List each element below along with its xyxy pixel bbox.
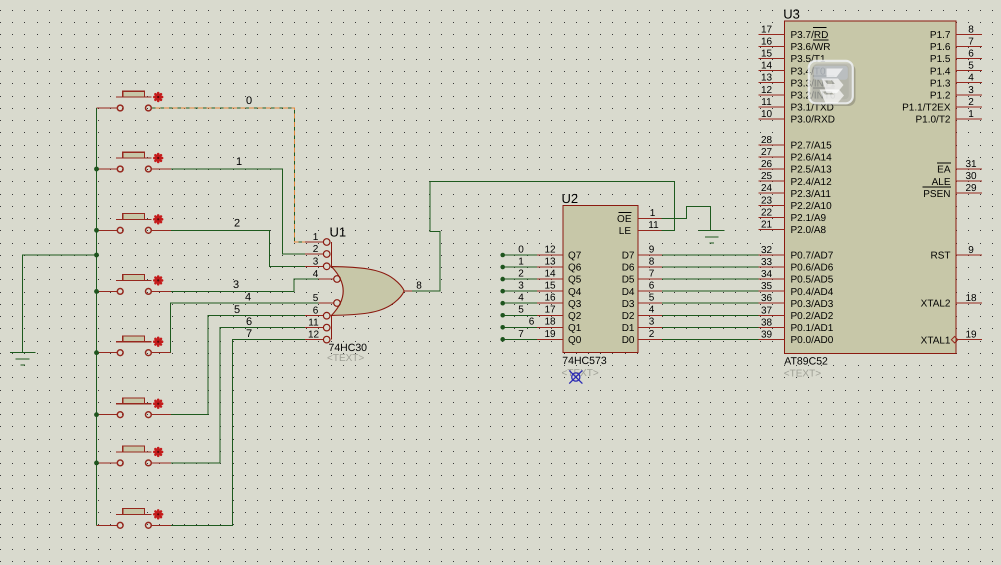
svg-text:2: 2 [313, 244, 319, 255]
U3 pin 36 P0.3/AD3 [758, 302, 784, 304]
svg-text:P1.5: P1.5 [930, 54, 951, 65]
svg-text:4: 4 [245, 292, 251, 304]
svg-text:3: 3 [968, 85, 974, 96]
svg-text:P2.5/A13: P2.5/A13 [791, 165, 833, 176]
svg-text:1: 1 [650, 208, 656, 219]
svg-text:14: 14 [761, 61, 773, 72]
svg-text:13: 13 [761, 73, 773, 84]
svg-text:18: 18 [544, 317, 556, 328]
svg-text:6: 6 [968, 49, 974, 60]
wire to ground [23, 255, 97, 353]
wire net 4 [170, 303, 318, 353]
svg-text:28: 28 [761, 135, 773, 146]
chip U2 74HC573 body [563, 206, 638, 353]
origin crosshair marker [569, 370, 582, 383]
svg-text:11: 11 [648, 220, 659, 231]
svg-text:0: 0 [518, 244, 524, 255]
junction [94, 461, 99, 466]
svg-text:P3.6/WR: P3.6/WR [791, 42, 831, 53]
U3 pin 31 EA [956, 168, 982, 170]
wire net 1 stub at U2 [503, 266, 537, 268]
svg-text:33: 33 [761, 257, 773, 268]
U3 pin 22 P2.1/A9 [758, 216, 784, 218]
wire net 7 [171, 340, 305, 526]
U2 pin 14 Q5 [537, 278, 563, 280]
gate pin 2 [305, 253, 323, 255]
svg-text:P2.2/A10: P2.2/A10 [791, 201, 833, 212]
svg-text:RST: RST [931, 251, 951, 262]
U3 pin 21 P2.0/A8 [758, 228, 784, 230]
U3 pin 25 P2.4/A12 [758, 180, 784, 182]
XTAL1 no-connect diamond [951, 337, 957, 343]
svg-text:6: 6 [313, 306, 319, 317]
U3 pin 32 P0.7/AD7 [758, 254, 784, 256]
svg-text:5: 5 [968, 61, 974, 72]
svg-text:12: 12 [308, 330, 320, 341]
svg-text:37: 37 [761, 305, 773, 316]
svg-text:7: 7 [518, 329, 524, 340]
U2 pin 3 D1 [638, 326, 662, 328]
svg-text:26: 26 [761, 159, 773, 170]
svg-text:13: 13 [544, 256, 556, 267]
svg-text:19: 19 [544, 329, 556, 340]
U2 pin 19 Q0 [537, 338, 563, 340]
U3 pin 1 P1.0/T2 [956, 118, 982, 120]
svg-text:32: 32 [761, 245, 773, 256]
wire net 7 stub at U2 [503, 338, 537, 340]
svg-text:PSEN: PSEN [923, 189, 950, 200]
svg-text:P1.4: P1.4 [930, 66, 951, 77]
ground right [699, 231, 725, 243]
svg-text:8: 8 [968, 25, 974, 36]
svg-text:P0.2/AD2: P0.2/AD2 [791, 311, 834, 322]
svg-text:ALE: ALE [932, 177, 951, 188]
U3 pin 18 XTAL2 [956, 302, 982, 304]
svg-text:1: 1 [518, 256, 524, 267]
svg-text:3: 3 [518, 281, 524, 292]
svg-text:4: 4 [518, 293, 524, 304]
svg-text:EA: EA [937, 165, 951, 176]
svg-text:10: 10 [761, 109, 773, 120]
U3 pin 13 P3.3/INT1 [758, 82, 784, 84]
svg-text:P0.5/AD5: P0.5/AD5 [791, 275, 834, 286]
U3 pin 28 P2.7/A15 [758, 144, 784, 146]
svg-text:16: 16 [544, 293, 556, 304]
gate output pin 8 [404, 290, 412, 292]
svg-text:D7: D7 [622, 251, 635, 262]
svg-text:1: 1 [313, 232, 319, 243]
U3 pin 16 P3.6/WR [758, 46, 784, 48]
svg-text:39: 39 [761, 329, 773, 340]
svg-text:P1.7: P1.7 [930, 30, 951, 41]
svg-text:34: 34 [761, 269, 773, 280]
svg-text:P0.0/AD0: P0.0/AD0 [791, 335, 834, 346]
junction [94, 412, 99, 417]
U2 pin 6 D4 [638, 290, 662, 292]
gate pin 6 [305, 315, 323, 317]
svg-text:16: 16 [761, 37, 773, 48]
gate pin 12 [305, 339, 323, 341]
svg-text:D4: D4 [622, 287, 635, 298]
svg-text:U1: U1 [330, 225, 347, 240]
wire net 0 stub at U2 [503, 254, 537, 256]
U3 pin 9 RST [956, 254, 982, 256]
svg-text:6: 6 [649, 281, 655, 292]
svg-text:Q2: Q2 [568, 311, 582, 322]
U3 pin 19 XTAL1 [956, 339, 982, 341]
svg-text:P1.3: P1.3 [930, 78, 951, 89]
U3 pin 35 P0.4/AD4 [758, 290, 784, 292]
svg-text:12: 12 [544, 244, 556, 255]
svg-text:23: 23 [761, 195, 773, 206]
svg-text:3: 3 [649, 317, 655, 328]
svg-text:2: 2 [234, 218, 240, 230]
gate pin 5 [319, 302, 334, 304]
svg-text:8: 8 [416, 281, 422, 292]
push button 4 [97, 275, 172, 295]
U3 pin 24 P2.3/A11 [758, 192, 784, 194]
wire U2 D7 to U3 [662, 254, 758, 256]
op-amp U1 74HC30 gate body [332, 267, 405, 316]
wire U2 D1 to U3 [662, 326, 758, 328]
U3 pin 29 PSEN [956, 192, 982, 194]
chip U3 AT89C52 body [784, 21, 956, 354]
svg-text:P0.1/AD1: P0.1/AD1 [791, 323, 834, 334]
svg-text:38: 38 [761, 317, 773, 328]
U3 pin 6 P1.5 [956, 58, 982, 60]
svg-text:D5: D5 [622, 275, 635, 286]
U3 pin 3 P1.2 [956, 94, 982, 96]
U2 pin 15 Q4 [537, 290, 563, 292]
svg-text:7: 7 [968, 37, 974, 48]
svg-text:D0: D0 [622, 335, 635, 346]
push button 1 [97, 91, 172, 111]
wire net 5 [171, 316, 305, 415]
U3 pin 33 P0.6/AD6 [758, 266, 784, 268]
svg-text:Q4: Q4 [568, 287, 582, 298]
wire net 6 [171, 328, 305, 463]
wire net 6 stub at U2 [503, 326, 537, 328]
svg-text:3: 3 [233, 279, 239, 291]
wire U2 D5 to U3 [662, 278, 758, 280]
svg-text:P1.1/T2EX: P1.1/T2EX [902, 102, 951, 113]
svg-text:17: 17 [544, 305, 556, 316]
U3 pin 4 P1.3 [956, 82, 982, 84]
ground left [10, 353, 35, 365]
wire OE to ground [661, 206, 710, 230]
wire net 0 (dashed) [152, 108, 308, 242]
wire net 3 [171, 279, 319, 291]
svg-text:Q1: Q1 [568, 323, 582, 334]
svg-text:9: 9 [968, 245, 974, 256]
U3 pin 30 ALE [956, 180, 982, 182]
svg-text:19: 19 [965, 330, 977, 341]
svg-text:LE: LE [619, 226, 632, 237]
U2 pin 2 D0 [638, 338, 662, 340]
U2 pin 9 D7 [638, 254, 662, 256]
wire U2 D4 to U3 [662, 290, 758, 292]
svg-text:6: 6 [246, 316, 252, 328]
U2 pin 8 D6 [638, 266, 662, 268]
svg-text:3: 3 [313, 256, 319, 267]
svg-text:D6: D6 [622, 263, 635, 274]
svg-text:4: 4 [313, 269, 319, 280]
svg-text:P0.3/AD3: P0.3/AD3 [791, 299, 834, 310]
U2 pin 5 D3 [638, 302, 662, 304]
svg-text:22: 22 [761, 207, 773, 218]
svg-text:35: 35 [761, 281, 773, 292]
svg-text:1: 1 [968, 109, 974, 120]
svg-text:15: 15 [544, 281, 556, 292]
wire net 4 stub at U2 [503, 302, 537, 304]
wire net 5 stub at U2 [503, 314, 537, 316]
svg-text:5: 5 [518, 305, 524, 316]
wire net 8 gate out to LE [412, 182, 674, 291]
svg-text:5: 5 [649, 293, 655, 304]
U3 pin 14 P3.4/T0 [758, 70, 784, 72]
svg-text:7: 7 [649, 269, 655, 280]
U3 pin 7 P1.6 [956, 46, 982, 48]
push button 8 [97, 509, 172, 529]
U3 pin 8 P1.7 [956, 34, 982, 36]
svg-text:D2: D2 [622, 311, 635, 322]
svg-text:27: 27 [761, 147, 773, 158]
U3 pin 2 P1.1/T2EX [956, 106, 982, 108]
gate pin 1 [305, 241, 323, 243]
U3 pin 23 P2.2/A10 [758, 204, 784, 206]
junction [94, 228, 99, 233]
svg-text:2: 2 [518, 269, 524, 280]
svg-text:Q7: Q7 [568, 251, 582, 262]
svg-text:P2.1/A9: P2.1/A9 [791, 213, 827, 224]
svg-text:11: 11 [761, 97, 772, 108]
U2 pin 17 Q2 [537, 314, 563, 316]
junction [94, 289, 99, 294]
U3 pin 15 P3.5/T1 [758, 58, 784, 60]
wire U2 D6 to U3 [662, 266, 758, 268]
U2 pin 12 Q7 [537, 254, 563, 256]
wire net 3 stub at U2 [503, 290, 537, 292]
svg-text:<TEXT>: <TEXT> [327, 353, 364, 364]
U3 pin 26 P2.5/A13 [758, 168, 784, 170]
svg-text:8: 8 [649, 256, 655, 267]
push button 7 [97, 446, 172, 466]
svg-text:15: 15 [761, 49, 773, 60]
svg-text:P3.0/RXD: P3.0/RXD [791, 114, 835, 125]
wire U2 D0 to U3 [662, 338, 758, 340]
svg-text:31: 31 [965, 159, 977, 170]
junction [94, 253, 99, 258]
U2 pin 4 D2 [638, 314, 662, 316]
svg-text:4: 4 [649, 305, 655, 316]
push button 6 [97, 398, 172, 418]
svg-text:P2.4/A12: P2.4/A12 [791, 177, 833, 188]
svg-text:74HC573: 74HC573 [562, 355, 607, 367]
gate pin 11 [305, 327, 323, 329]
svg-text:P0.4/AD4: P0.4/AD4 [791, 287, 834, 298]
svg-text:U3: U3 [783, 7, 800, 22]
svg-text:11: 11 [308, 318, 319, 329]
wire net 2 [171, 230, 305, 266]
svg-text:17: 17 [761, 25, 773, 36]
U3 pin 39 P0.0/AD0 [758, 338, 784, 340]
gate pin 4 [319, 278, 334, 280]
svg-text:XTAL2: XTAL2 [921, 299, 951, 310]
svg-text:XTAL1: XTAL1 [921, 335, 951, 346]
svg-text:7: 7 [246, 328, 252, 340]
svg-text:Q6: Q6 [568, 263, 582, 274]
wire U2 D3 to U3 [662, 302, 758, 304]
svg-text:2: 2 [968, 97, 974, 108]
U3 pin 34 P0.5/AD5 [758, 278, 784, 280]
svg-text:5: 5 [234, 304, 240, 316]
svg-text:14: 14 [544, 269, 556, 280]
svg-text:24: 24 [761, 183, 773, 194]
svg-text:P2.6/A14: P2.6/A14 [791, 153, 833, 164]
U3 pin 37 P0.2/AD2 [758, 314, 784, 316]
svg-text:6: 6 [529, 317, 535, 328]
svg-text:P1.6: P1.6 [930, 42, 951, 53]
U3 pin 27 P2.6/A14 [758, 156, 784, 158]
svg-text:P1.2: P1.2 [930, 90, 951, 101]
svg-text:P2.0/A8: P2.0/A8 [791, 225, 827, 236]
svg-text:12: 12 [761, 85, 773, 96]
svg-text:<TEXT>: <TEXT> [784, 369, 821, 380]
overlay glossy icon [809, 61, 856, 106]
svg-text:4: 4 [968, 73, 974, 84]
U3 pin 17 P3.7/RD [758, 34, 784, 36]
svg-text:5: 5 [313, 293, 319, 304]
svg-text:Q0: Q0 [568, 335, 582, 346]
U3 pin 10 P3.0/RXD [758, 118, 784, 120]
U3 pin 5 P1.4 [956, 70, 982, 72]
svg-text:30: 30 [965, 171, 977, 182]
svg-text:P2.3/A11: P2.3/A11 [791, 189, 832, 200]
U3 pin 11 P3.1/TXD [758, 106, 784, 108]
svg-text:18: 18 [965, 293, 977, 304]
push button 3 [97, 214, 172, 234]
push button 2 [97, 152, 172, 172]
junction [94, 350, 99, 355]
U2 pin 1 OE [638, 218, 661, 220]
wire net 2 stub at U2 [503, 278, 537, 280]
wire net 1 [171, 169, 305, 254]
svg-text:2: 2 [649, 329, 655, 340]
svg-text:0: 0 [246, 95, 252, 107]
U2 pin 16 Q3 [537, 302, 563, 304]
svg-text:P2.7/A15: P2.7/A15 [791, 141, 833, 152]
svg-text:Q5: Q5 [568, 275, 582, 286]
U3 pin 12 P3.2/INT0 [758, 94, 784, 96]
svg-text:U2: U2 [562, 191, 579, 206]
U2 pin 11 LE [638, 230, 661, 232]
svg-text:25: 25 [761, 171, 773, 182]
svg-text:Q3: Q3 [568, 299, 582, 310]
U2 pin 13 Q6 [537, 266, 563, 268]
U3 pin 38 P0.1/AD1 [758, 326, 784, 328]
svg-text:29: 29 [965, 183, 977, 194]
svg-text:21: 21 [761, 219, 773, 230]
U2 pin 18 Q1 [537, 326, 563, 328]
U2 pin 7 D5 [638, 278, 662, 280]
wire left bus [96, 108, 98, 525]
svg-text:OE: OE [617, 214, 632, 225]
svg-text:D1: D1 [622, 323, 635, 334]
svg-text:36: 36 [761, 293, 773, 304]
svg-text:D3: D3 [622, 299, 635, 310]
svg-text:P0.7/AD7: P0.7/AD7 [791, 251, 834, 262]
svg-text:P0.6/AD6: P0.6/AD6 [791, 263, 834, 274]
junction [94, 167, 99, 172]
gate pin 3 [305, 265, 323, 267]
svg-text:1: 1 [236, 156, 242, 168]
svg-text:9: 9 [649, 244, 655, 255]
svg-text:P1.0/T2: P1.0/T2 [915, 114, 950, 125]
push button 5 [97, 336, 172, 356]
svg-text:AT89C52: AT89C52 [784, 356, 828, 368]
wire U2 D2 to U3 [662, 314, 758, 316]
